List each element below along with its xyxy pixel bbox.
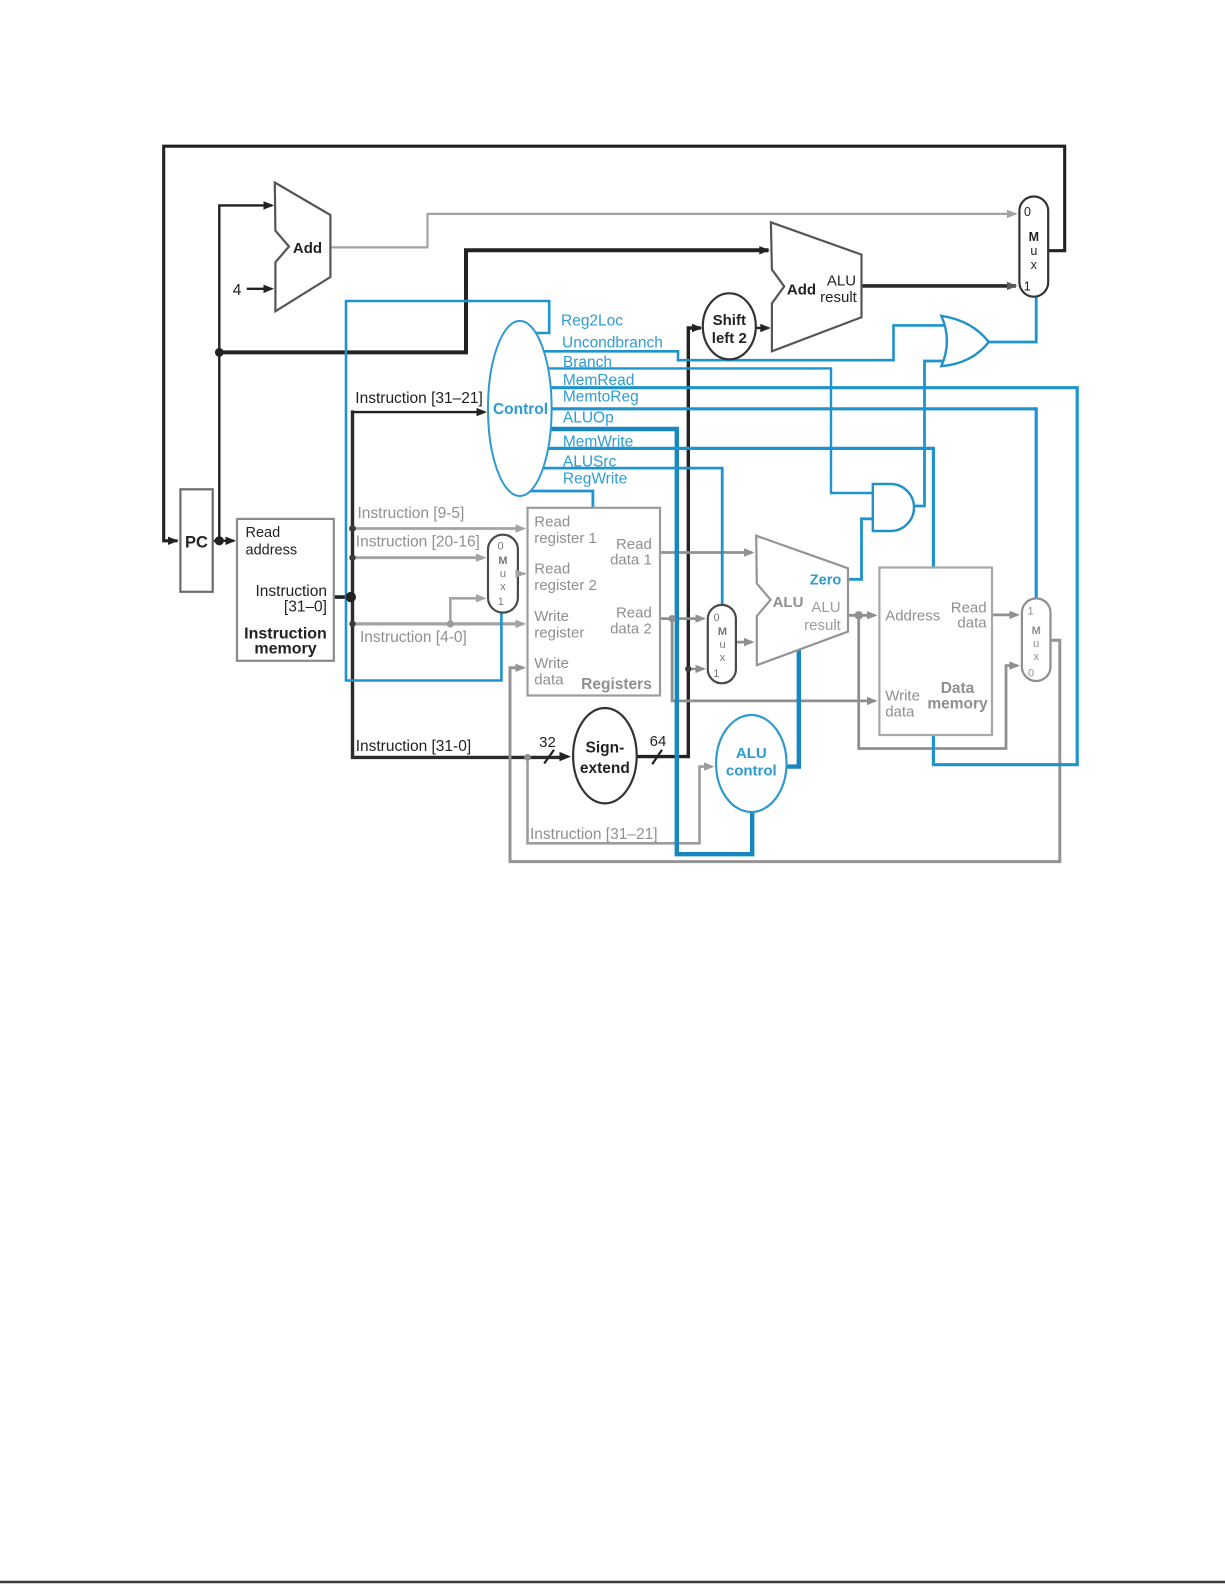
svg-text:Write: Write <box>534 608 569 625</box>
arrow into ALU bottom input <box>744 638 755 646</box>
ALU control oval <box>716 715 786 812</box>
wire: sign-extend output to shift left 2 vertical <box>637 328 699 757</box>
arrow into ALUSrc mux input 1 <box>696 665 707 673</box>
wire: thick PC value to branch adder Add2 <box>219 250 766 352</box>
wire: read data 2 to ALUSrc mux input 0 <box>660 617 702 620</box>
svg-text:Write: Write <box>885 688 920 705</box>
wire: ALUOp control to ALU control unit <box>525 429 752 854</box>
wire: ALU control output to ALU operation input <box>786 649 799 767</box>
arrow into read register 2 <box>516 570 527 578</box>
arrow into write register <box>516 620 527 628</box>
bit-width slash 32 <box>544 750 554 764</box>
arrow into PC <box>168 537 179 545</box>
arrow into top mux input 1 <box>1007 282 1018 290</box>
wire: instruction [31-21] to ALU control <box>528 757 711 843</box>
svg-text:Read: Read <box>616 536 652 553</box>
wire: PC to instruction memory read address <box>213 540 233 542</box>
wire: ALU Zero output to AND gate bottom input <box>848 519 872 580</box>
sign-extend oval <box>573 708 637 803</box>
svg-text:u: u <box>1030 244 1037 258</box>
node: read data 2 junction <box>669 615 676 622</box>
svg-text:Branch: Branch <box>563 354 612 371</box>
wire: instruction [31-21] into Control <box>353 411 484 413</box>
junction dots <box>215 348 863 761</box>
arrow into ALU control <box>704 762 715 770</box>
wire: MemWrite control to data memory top <box>525 448 933 569</box>
wire: ALU result bypass to write-back mux input 0 <box>859 615 1016 748</box>
svg-text:Address: Address <box>885 608 940 625</box>
svg-text:register 2: register 2 <box>534 577 597 594</box>
wire: read data 1 to ALU <box>660 551 751 554</box>
wire: instruction [20-16] to register mux input 0 <box>353 556 483 559</box>
svg-text:4: 4 <box>233 282 242 299</box>
arrow into Add2 bottom <box>760 324 771 332</box>
wire: sign-extend value into ALUSrc mux input 1 <box>688 668 702 670</box>
svg-text:x: x <box>1031 258 1038 272</box>
wire: shift left 2 output into Add2 lower input <box>756 327 768 329</box>
arrow into data memory address <box>867 611 878 619</box>
svg-text:memory: memory <box>254 641 316 658</box>
svg-text:Instruction [9-5]: Instruction [9-5] <box>358 505 465 522</box>
wire: Add1 output (PC+4) to top mux input 0 <box>330 214 1015 248</box>
arrow into register mux input 0 <box>476 554 487 562</box>
svg-text:Registers: Registers <box>581 676 652 693</box>
wire: PC feedback loop from top mux output to PC input <box>164 146 1065 541</box>
arrow into write-back mux input 0 <box>1009 661 1020 669</box>
wire: data memory read data to write-back mux input 1 <box>992 614 1016 617</box>
node: sign-extend to mux tap <box>685 666 691 672</box>
svg-text:Instruction: Instruction <box>255 583 327 600</box>
svg-text:Data: Data <box>941 680 975 697</box>
svg-text:Read: Read <box>534 561 570 578</box>
svg-text:RegWrite: RegWrite <box>563 471 627 488</box>
svg-text:PC: PC <box>185 534 208 552</box>
svg-text:0: 0 <box>1028 668 1034 680</box>
svg-text:data 1: data 1 <box>610 552 652 569</box>
wire: MemRead control to data memory bottom <box>525 388 1077 765</box>
svg-text:ALUOp: ALUOp <box>563 410 614 427</box>
svg-text:M: M <box>718 626 727 638</box>
svg-text:Add: Add <box>787 282 816 299</box>
adder Add2 (branch target) <box>771 222 862 351</box>
ALU <box>756 536 848 666</box>
arrow into Add1 top <box>264 201 275 209</box>
svg-text:Instruction [4-0]: Instruction [4-0] <box>360 629 467 646</box>
svg-text:M: M <box>498 555 507 567</box>
svg-text:64: 64 <box>650 733 667 750</box>
svg-text:ALU: ALU <box>811 599 840 616</box>
arrow into read register 1 <box>516 524 527 532</box>
node: instruction [4-0] tap <box>349 621 355 627</box>
svg-text:0: 0 <box>1024 205 1031 219</box>
wire: instruction [4-0] branch to register mux input 1 <box>450 598 482 624</box>
arrow into sign-extend <box>560 752 572 761</box>
arrow into Add2 top <box>759 246 770 254</box>
wire: instruction [4-0] to write register <box>353 622 523 625</box>
svg-text:ALUSrc: ALUSrc <box>563 454 617 471</box>
svg-text:Write: Write <box>534 655 569 672</box>
wire: instruction bus vertical <box>353 412 564 757</box>
svg-text:1: 1 <box>1024 280 1031 294</box>
svg-text:Zero: Zero <box>810 573 842 589</box>
wire: instruction memory output main instruction bus <box>333 595 353 599</box>
svg-text:Read: Read <box>534 514 570 531</box>
wire: ALUSrc control to ALUSrc mux select <box>525 468 722 606</box>
OR gate <box>941 316 989 366</box>
svg-text:MemtoReg: MemtoReg <box>563 389 639 406</box>
mux: register destination mux <box>488 535 518 613</box>
svg-text:ALU: ALU <box>736 745 767 762</box>
arrow into shift left 2 <box>692 324 703 332</box>
arrow into Add1 bottom (4) <box>264 285 275 293</box>
arrow into ALU top input <box>744 548 755 556</box>
ARROWHEADS <box>168 201 1020 771</box>
svg-text:1: 1 <box>1027 606 1033 618</box>
node: branch-path junction <box>215 348 224 357</box>
svg-text:data 2: data 2 <box>610 621 652 638</box>
svg-text:Instruction [31-0]: Instruction [31-0] <box>356 738 471 755</box>
node: ALU result junction <box>855 611 863 619</box>
svg-text:control: control <box>726 763 777 780</box>
svg-text:u: u <box>500 568 506 580</box>
arrow into registers write data <box>516 664 527 672</box>
wire: Reg2Loc control to register mux select <box>346 301 549 681</box>
svg-text:Read: Read <box>246 525 281 541</box>
AND gate <box>873 484 914 531</box>
wire: Branch control to AND gate top input <box>525 368 872 493</box>
wire: MemtoReg control to write-back mux select <box>525 409 1036 598</box>
bit-width slash 64 <box>652 750 662 764</box>
svg-text:0: 0 <box>714 612 720 624</box>
svg-text:u: u <box>1033 638 1039 650</box>
wire: ALU result to data memory address <box>848 614 874 617</box>
node: instruction [9-5] tap <box>349 525 356 532</box>
svg-text:data: data <box>957 615 987 632</box>
adder Add1 (PC+4) <box>275 183 331 312</box>
svg-text:x: x <box>720 652 726 664</box>
svg-text:memory: memory <box>927 696 988 713</box>
svg-text:ALU: ALU <box>773 594 804 611</box>
svg-text:Reg2Loc: Reg2Loc <box>561 313 623 330</box>
wire: register mux output to read register 2 <box>518 572 524 575</box>
arrow into register mux input 1 <box>476 594 487 602</box>
mux: write-back MemtoReg mux <box>1022 598 1051 681</box>
svg-text:result: result <box>820 289 858 306</box>
svg-text:left 2: left 2 <box>712 330 747 347</box>
svg-text:MemWrite: MemWrite <box>563 434 633 451</box>
svg-text:result: result <box>804 617 842 634</box>
node: instruction [31-21] tap for ALU control <box>524 754 531 761</box>
wire: PC value up to Add1 top input <box>219 205 271 540</box>
svg-text:M: M <box>1029 230 1039 244</box>
wire: instruction [9-5] to read register 1 <box>353 527 523 530</box>
svg-text:Instruction [20-16]: Instruction [20-16] <box>356 534 480 551</box>
wire: write-back mux output loop to registers write data <box>510 640 1060 861</box>
arrow into control <box>477 408 488 416</box>
svg-text:address: address <box>246 543 298 559</box>
svg-text:Add: Add <box>293 240 322 257</box>
svg-text:Uncondbranch: Uncondbranch <box>562 335 663 352</box>
wire: RegWrite control to registers <box>522 491 593 510</box>
svg-text:Instruction [31–21]: Instruction [31–21] <box>530 826 658 843</box>
svg-text:1: 1 <box>713 668 719 680</box>
wire: Add2 ALU result to top mux input 1 <box>862 284 1015 288</box>
svg-text:u: u <box>719 639 725 651</box>
wire: read data 2 branch to data memory write data <box>672 619 873 701</box>
arrow into top mux input 0 <box>1007 210 1018 218</box>
svg-text:Read: Read <box>616 605 652 622</box>
registers box <box>528 508 661 696</box>
shift left 2 oval <box>703 293 756 359</box>
svg-text:M: M <box>1032 625 1041 637</box>
svg-text:register: register <box>534 625 584 642</box>
node: instruction [20-16] tap <box>349 555 355 561</box>
arrow into data memory write data <box>867 697 878 705</box>
svg-text:extend: extend <box>580 760 630 777</box>
instruction memory box <box>237 519 334 661</box>
mux: top PCSrc mux <box>1019 197 1048 297</box>
svg-text:MemRead: MemRead <box>563 372 635 389</box>
page bottom rule <box>0 1581 1225 1584</box>
data memory box <box>879 568 992 736</box>
register PC <box>180 489 212 592</box>
arrow into write-back mux input 1 <box>1009 611 1020 619</box>
wire: OR gate output to top mux select <box>988 298 1036 343</box>
node: PC output junction <box>215 536 224 545</box>
svg-text:data: data <box>885 704 915 721</box>
node: write register mux junction <box>447 620 454 627</box>
arrow into ALUSrc mux input 0 <box>696 614 707 622</box>
wire: AND gate output to OR gate bottom input <box>914 361 959 506</box>
wire: ALUSrc mux output to ALU <box>736 641 751 644</box>
svg-text:data: data <box>534 672 564 689</box>
svg-text:[31–0]: [31–0] <box>284 599 327 616</box>
svg-text:Sign-: Sign- <box>586 740 625 757</box>
mux: ALUSrc mux <box>708 605 736 683</box>
wire: constant 4 into Add1 <box>248 288 270 290</box>
svg-text:32: 32 <box>539 734 556 751</box>
svg-text:Shift: Shift <box>713 312 746 329</box>
svg-text:Instruction [31–21]: Instruction [31–21] <box>355 390 483 407</box>
node: instruction bus junction <box>346 592 356 602</box>
svg-text:x: x <box>500 581 506 593</box>
svg-text:register 1: register 1 <box>534 530 597 547</box>
svg-text:ALU: ALU <box>827 273 856 290</box>
svg-text:1: 1 <box>498 596 504 608</box>
svg-text:0: 0 <box>497 541 503 553</box>
control unit oval <box>488 321 552 496</box>
svg-text:x: x <box>1033 651 1039 663</box>
arrow into instruction memory <box>226 537 237 545</box>
wire: Uncondbranch control to OR gate top input <box>525 325 958 360</box>
svg-text:Control: Control <box>493 401 548 418</box>
